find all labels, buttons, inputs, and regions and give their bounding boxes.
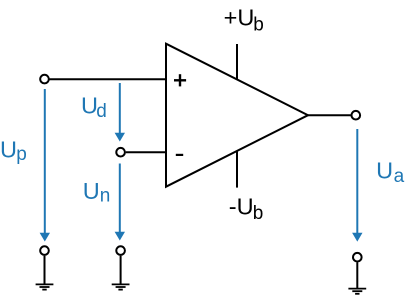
wire -Ub supply	[236, 151, 238, 188]
wire noninverting input	[49, 78, 166, 80]
wire output	[307, 114, 351, 116]
op-amp minus input marker	[176, 154, 183, 156]
svg-text:-U: -U	[229, 193, 254, 219]
arrow Up	[40, 89, 50, 242]
svg-text:a: a	[394, 166, 405, 187]
svg-text:d: d	[96, 101, 107, 122]
svg-text:U: U	[83, 178, 100, 204]
terminal node Up	[40, 75, 49, 84]
svg-text:n: n	[100, 186, 111, 207]
svg-text:b: b	[253, 14, 264, 35]
svg-text:b: b	[253, 203, 264, 224]
arrow Ua	[352, 129, 362, 242]
ground right	[348, 253, 366, 294]
svg-text:p: p	[16, 144, 27, 165]
arrow Ud	[115, 83, 125, 142]
svg-text:U: U	[0, 136, 17, 162]
terminal node Ua	[352, 111, 361, 120]
op-amp plus input marker	[174, 74, 186, 86]
arrow Un	[115, 164, 125, 241]
svg-text:+U: +U	[224, 5, 255, 31]
node inverting input	[116, 148, 125, 157]
ground left	[36, 246, 54, 289]
svg-text:U: U	[376, 157, 393, 183]
wire +Ub supply	[236, 44, 238, 80]
ground middle	[112, 246, 130, 289]
op-amp U1 triangle	[166, 44, 308, 187]
wire inverting input	[126, 151, 166, 153]
